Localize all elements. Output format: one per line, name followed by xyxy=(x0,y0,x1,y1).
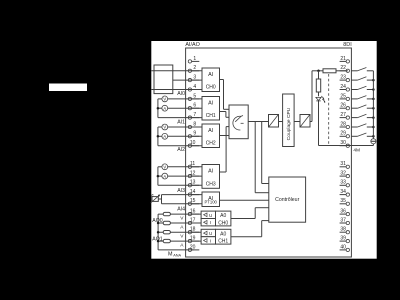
wire switch rail xyxy=(372,71,374,139)
junction DI input xyxy=(317,70,320,73)
wire AI1 left bracket xyxy=(157,127,159,146)
wire AI CH3 to mux xyxy=(220,171,227,173)
wire AI0 A to terminal xyxy=(168,107,202,109)
ammeter symbol AI2 A xyxy=(162,173,168,179)
terminal 5 xyxy=(188,93,199,100)
terminal 24 xyxy=(340,84,350,91)
voltmeter symbol AI1 V xyxy=(162,124,168,130)
terminal 16 xyxy=(188,209,199,216)
resistor AO1 V load xyxy=(163,231,170,234)
svg-text:AI0: AI0 xyxy=(177,91,185,97)
terminal 17 xyxy=(188,217,199,224)
terminal 27 xyxy=(340,112,350,119)
terminal 14 xyxy=(188,189,199,196)
svg-text:I: I xyxy=(210,220,211,225)
wire isolation 1 to CPU coupling xyxy=(279,121,283,123)
terminal 26 xyxy=(340,103,350,110)
wire mux to isolation 1 xyxy=(248,121,268,123)
terminal 33 xyxy=(340,180,350,187)
AO converter CH1 block xyxy=(201,229,215,236)
switch S27 xyxy=(351,117,357,119)
svg-text:40: 40 xyxy=(340,244,346,250)
wire terminal 3 to AI CH0 xyxy=(173,79,202,81)
wire AI2 left bracket xyxy=(157,167,159,186)
wire terminal 20 MANA xyxy=(158,249,193,251)
terminal 2 xyxy=(188,65,199,72)
junction AO0 I xyxy=(157,222,160,225)
svg-text:A: A xyxy=(163,106,166,111)
CPU coupling block xyxy=(283,94,295,147)
wire terminal 14 to AI PT100 xyxy=(162,194,203,196)
wire M rail to terminal 30 xyxy=(319,145,374,147)
resistor DI input xyxy=(323,69,336,73)
svg-text:CH1: CH1 xyxy=(206,113,216,119)
svg-text:8DI: 8DI xyxy=(343,42,351,48)
terminal 1 xyxy=(188,56,199,63)
svg-text:CH2: CH2 xyxy=(206,141,216,147)
resistor AO0 I load xyxy=(163,221,170,224)
svg-text:34: 34 xyxy=(340,189,346,195)
wire terminal 22 input xyxy=(312,70,323,72)
svg-text:V: V xyxy=(163,165,166,170)
svg-text:35: 35 xyxy=(340,198,346,204)
junction switch rail 28 xyxy=(372,126,375,129)
transducer box xyxy=(154,65,173,94)
terminal 22 xyxy=(340,65,350,72)
terminal 7 xyxy=(188,112,199,119)
isolation barrier 1 xyxy=(269,115,279,128)
terminal 4 xyxy=(188,84,199,91)
svg-text:U: U xyxy=(209,231,212,236)
terminal 13 xyxy=(188,180,199,187)
svg-text:36: 36 xyxy=(340,209,346,215)
svg-text:CH1: CH1 xyxy=(218,239,228,245)
junction AO1 V xyxy=(157,231,160,234)
svg-text:AI4: AI4 xyxy=(177,207,185,213)
junction AI0 xyxy=(157,107,160,110)
switch S28 xyxy=(351,126,357,128)
junction switch rail 23 xyxy=(372,79,375,82)
wire AI CH2 to mux xyxy=(220,135,230,137)
svg-text:A0: A0 xyxy=(220,231,226,237)
AI converter CH3 block xyxy=(202,165,220,189)
terminal 11 xyxy=(188,161,199,168)
wire AI2 V to terminal xyxy=(168,166,202,168)
svg-text:U: U xyxy=(209,213,212,218)
resistor AO0 V load xyxy=(163,212,170,215)
switch S24 xyxy=(351,89,357,91)
junction switch rail 29 xyxy=(372,135,375,138)
isolation barrier 2 xyxy=(300,115,310,128)
svg-text:Couplage CPU: Couplage CPU xyxy=(286,107,292,140)
wire DI rail down to isolation 2 xyxy=(311,71,313,122)
junction switch rail 26 xyxy=(372,107,375,110)
wire AI0 common to terminal xyxy=(158,117,202,119)
svg-text:2: 2 xyxy=(193,65,196,71)
svg-text:PT100: PT100 xyxy=(205,200,218,205)
svg-text:22: 22 xyxy=(340,65,346,71)
terminal 38 xyxy=(340,227,350,234)
svg-text:27: 27 xyxy=(340,112,346,118)
terminal 8 xyxy=(188,121,199,128)
module outline box xyxy=(186,48,352,257)
svg-text:AI: AI xyxy=(208,72,213,78)
multiplexer block xyxy=(229,105,248,139)
switch S23 xyxy=(351,79,357,81)
svg-text:31: 31 xyxy=(340,161,346,167)
wire terminal 15 to AI PT100 xyxy=(162,203,203,205)
junction AI2 xyxy=(157,175,160,178)
supply symbol on rail xyxy=(371,139,376,144)
terminal 10 xyxy=(188,140,199,147)
wire AI PT100 to controller xyxy=(220,199,269,201)
voltmeter symbol AI2 V xyxy=(162,164,168,170)
svg-text:AI: AI xyxy=(208,101,213,107)
wire AI CH1 to mux xyxy=(220,111,226,113)
wire CPU coupling to isolation 2 xyxy=(294,121,300,123)
svg-text:39: 39 xyxy=(340,236,346,242)
wire mux tap to controller input 2 xyxy=(254,122,256,193)
wire MANA common bracket xyxy=(157,214,159,250)
terminal 37 xyxy=(340,217,350,224)
dashed repetition line xyxy=(328,74,330,146)
svg-text:I: I xyxy=(210,238,211,243)
wire AI1 common to terminal xyxy=(158,145,202,147)
ammeter symbol AI0 A xyxy=(162,105,168,111)
svg-text:25: 25 xyxy=(340,93,346,99)
svg-text:A: A xyxy=(163,174,166,179)
terminal 20 xyxy=(188,244,199,251)
terminal 34 xyxy=(340,189,350,196)
wire AO1 V load line xyxy=(158,231,201,233)
wire AI2 common to terminal xyxy=(158,184,202,186)
svg-text:A0: A0 xyxy=(220,213,226,219)
junction AO1 I xyxy=(157,240,160,243)
wire AI0 V to terminal xyxy=(168,98,202,100)
wire terminal 4 to AI CH0 xyxy=(151,89,202,91)
terminal 9 xyxy=(188,131,199,138)
junction switch rail 27 xyxy=(372,116,375,119)
svg-text:24: 24 xyxy=(340,84,346,90)
terminal 18 xyxy=(188,227,199,234)
svg-text:ANA: ANA xyxy=(173,253,181,257)
svg-text:AI1: AI1 xyxy=(177,120,185,126)
wire AI2 A to terminal xyxy=(168,175,202,177)
svg-text:CH0: CH0 xyxy=(206,85,216,91)
svg-text:26: 26 xyxy=(340,103,346,109)
ammeter symbol AI1 A xyxy=(162,133,168,139)
wire AO CH0 to controller xyxy=(231,218,255,220)
switch S25 xyxy=(351,98,357,100)
resistor DI vertical xyxy=(316,79,320,92)
wire AO CH1 to controller xyxy=(231,236,262,238)
terminal 32 xyxy=(340,171,350,178)
svg-text:AI/AO: AI/AO xyxy=(185,42,199,48)
terminal 35 xyxy=(340,198,350,205)
AI converter PT100 block xyxy=(202,192,220,207)
switch S26 xyxy=(351,107,357,109)
wire terminal 2 to AI CH0 xyxy=(151,70,202,72)
svg-text:AO0: AO0 xyxy=(152,218,162,224)
terminal 3 xyxy=(188,75,199,82)
svg-text:AI3: AI3 xyxy=(177,188,185,194)
wire AI CH0 to mux xyxy=(220,79,224,81)
svg-text:21: 21 xyxy=(340,56,346,62)
RTD PT100 sensor symbol xyxy=(152,197,158,202)
AI converter CH2 block xyxy=(202,124,220,148)
svg-text:AI: AI xyxy=(208,169,213,175)
terminal 29 xyxy=(340,131,350,138)
AI converter CH0 block xyxy=(202,68,220,92)
wire AI1 A to terminal xyxy=(168,135,202,137)
wire resistor to LED xyxy=(318,71,320,79)
terminal 15 xyxy=(188,198,199,205)
wire LED to M rail xyxy=(318,101,320,146)
LED DI status xyxy=(316,97,321,100)
junction AI1 xyxy=(157,135,160,138)
svg-text:28: 28 xyxy=(340,121,346,127)
terminal 39 xyxy=(340,236,350,243)
wire AI1 V to terminal xyxy=(168,126,202,128)
terminal 23 xyxy=(340,75,350,82)
terminal 12 xyxy=(188,171,199,178)
junction switch rail 25 xyxy=(372,98,375,101)
terminal 31 xyxy=(340,161,350,168)
terminal 21 xyxy=(340,56,350,63)
terminal 28 xyxy=(340,121,350,128)
junction switch rail 24 xyxy=(372,88,375,91)
svg-text:33: 33 xyxy=(340,180,346,186)
terminal 25 xyxy=(340,93,350,100)
wire AO1 I load line xyxy=(158,240,201,242)
svg-text:37: 37 xyxy=(340,217,346,223)
svg-text:1: 1 xyxy=(193,56,196,62)
svg-text:A: A xyxy=(163,134,166,139)
switch S22 xyxy=(351,70,357,72)
svg-text:V: V xyxy=(163,97,166,102)
wire AO0 V load line xyxy=(158,213,201,215)
svg-text:CH3: CH3 xyxy=(206,182,216,188)
wire AI0 left bracket xyxy=(157,99,159,118)
wire isolation 2 to DI input rail xyxy=(310,121,312,123)
resistor AO1 I load xyxy=(163,239,170,242)
AI converter CH1 block xyxy=(202,97,220,121)
svg-text:4M: 4M xyxy=(353,148,360,154)
AO converter CH0 block xyxy=(201,211,215,218)
svg-text:Contrôleur: Contrôleur xyxy=(275,197,299,203)
svg-text:AI2: AI2 xyxy=(177,147,185,153)
svg-text:CH0: CH0 xyxy=(218,220,228,226)
svg-text:29: 29 xyxy=(340,131,346,137)
svg-text:AI: AI xyxy=(208,128,213,134)
terminal 30 xyxy=(340,140,350,147)
svg-text:AO1: AO1 xyxy=(152,236,162,242)
svg-text:V: V xyxy=(163,125,166,130)
svg-text:32: 32 xyxy=(340,171,346,177)
terminal 36 xyxy=(340,209,350,216)
wire AO0 I load line xyxy=(158,222,201,224)
controller block xyxy=(269,177,306,222)
voltmeter symbol AI0 V xyxy=(162,96,168,102)
terminal 19 xyxy=(188,236,199,243)
terminal 40 xyxy=(340,244,350,251)
svg-text:23: 23 xyxy=(340,75,346,81)
wire RTD bracket xyxy=(161,195,163,204)
wire mux tap to controller input 1 xyxy=(261,122,263,184)
switch S29 xyxy=(351,135,357,137)
terminal 6 xyxy=(188,103,199,110)
svg-text:38: 38 xyxy=(340,227,346,233)
